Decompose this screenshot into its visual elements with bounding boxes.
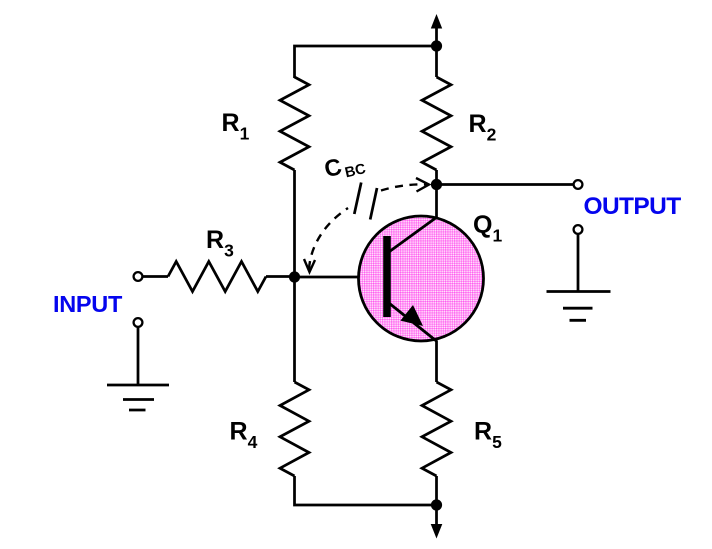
capacitor C_BC plates (354, 183, 377, 220)
wire base (295, 276, 388, 279)
node base junction (289, 271, 300, 282)
node bottom junction (431, 499, 442, 510)
terminal INPUT (134, 272, 143, 281)
transistor Q1 (359, 216, 484, 342)
capacitor C_BC dashed feedback arc (left half) (309, 208, 348, 269)
terminal output-ground (574, 225, 583, 234)
wire top rail (295, 46, 437, 78)
wire R5 to bottom rail (435, 476, 438, 505)
svg-text:R1: R1 (222, 109, 250, 144)
wire output ground stem (577, 234, 580, 292)
terminal input-ground (134, 318, 143, 327)
capacitor C_BC dashed feedback arc (right half) (381, 184, 428, 190)
wire R2 to collector node (435, 170, 438, 185)
svg-text:R4: R4 (230, 418, 258, 453)
svg-text:Q1: Q1 (473, 211, 502, 246)
svg-text:R5: R5 (474, 418, 502, 453)
wire input ground stem (137, 327, 140, 385)
wire collector (435, 185, 438, 219)
svg-text:BC: BC (343, 161, 368, 181)
svg-text:INPUT: INPUT (53, 291, 123, 317)
svg-text:R3: R3 (206, 226, 234, 261)
node collector junction (431, 179, 442, 190)
wire R2 top stub (435, 46, 438, 77)
arrowhead at collector end of arc (416, 178, 429, 192)
svg-text:C: C (322, 153, 344, 182)
svg-text:R2: R2 (469, 110, 497, 145)
wire left rail (293, 170, 296, 382)
wire output (437, 183, 574, 186)
terminal OUTPUT (574, 180, 583, 189)
resistor R5 (422, 382, 451, 476)
arrowhead at base end of arc (304, 259, 315, 272)
node top junction (431, 40, 442, 51)
resistor R4 (280, 382, 309, 476)
Vcc arrow (top) (431, 14, 442, 46)
ground (input) (107, 385, 169, 410)
label C_BC (322, 148, 368, 186)
wire bottom rail (295, 476, 437, 505)
wire emitter (435, 341, 438, 382)
ground (output) (547, 292, 611, 321)
resistor R1 (280, 77, 309, 170)
resistor R3 (168, 262, 266, 292)
resistor R2 (422, 77, 451, 170)
wire R3 to base node (266, 275, 295, 278)
svg-text:OUTPUT: OUTPUT (584, 193, 682, 220)
wire input (143, 275, 169, 278)
Vee arrow (bottom) (431, 505, 443, 539)
